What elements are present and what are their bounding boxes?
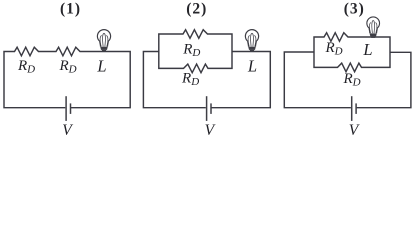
svg-text:V: V [349,122,360,137]
svg-text:L: L [96,56,106,75]
svg-text:V: V [205,122,216,137]
svg-text:L: L [247,56,257,75]
svg-text:RD: RD [182,41,200,59]
svg-text:L: L [362,40,372,59]
svg-text:RD: RD [342,71,360,89]
svg-text:(1): (1) [60,1,81,18]
svg-text:(3): (3) [344,1,365,18]
svg-text:(2): (2) [186,1,207,18]
svg-text:RD: RD [181,71,199,89]
svg-text:V: V [62,122,73,137]
svg-text:RD: RD [324,40,342,58]
svg-text:RD: RD [58,58,76,76]
svg-text:RD: RD [17,58,35,76]
